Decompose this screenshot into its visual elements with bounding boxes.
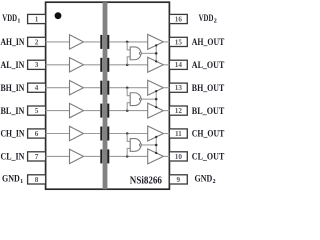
pin box 1 [28, 14, 46, 23]
junction node AL [126, 64, 129, 67]
wire enable line channel A [155, 45, 157, 61]
pin box 7 [28, 152, 46, 161]
pin box 8 [28, 175, 46, 184]
wire NAND UA output to enable node [142, 52, 157, 54]
wire output buffer AH to pin [163, 41, 169, 43]
isolation capacitor plates channel row pin 6 [100, 127, 109, 141]
input buffer BL [70, 103, 84, 117]
NAND gate UB interlock [130, 93, 141, 106]
svg-text:3: 3 [35, 61, 39, 69]
wire barrier to output buffer BL [109, 110, 147, 112]
svg-text:7: 7 [35, 153, 39, 161]
wire barrier to output buffer CL [109, 155, 147, 157]
wire input buffer CH to barrier [84, 133, 101, 135]
svg-text:VDD: VDD [2, 13, 17, 23]
svg-text:CL_IN: CL_IN [1, 152, 25, 162]
wire input buffer CL to barrier [84, 155, 101, 157]
svg-text:2: 2 [35, 38, 39, 46]
junction enable top contact C [155, 136, 157, 138]
isolation barrier bar [103, 2, 108, 189]
input buffer AL [70, 58, 84, 72]
wire AH junction to NAND UA top input [127, 42, 130, 50]
wire input buffer AL to barrier [84, 64, 101, 66]
wire output buffer CL to pin [163, 155, 169, 157]
svg-text:1: 1 [20, 179, 23, 185]
NAND UC output bubble [139, 144, 141, 146]
pin box 14 [169, 60, 187, 69]
svg-text:12: 12 [175, 107, 183, 115]
output buffer AH [148, 34, 164, 49]
svg-text:NSi8266: NSi8266 [130, 176, 162, 187]
input buffer CL [70, 149, 84, 163]
output buffer BL [148, 103, 164, 118]
svg-text:BL_IN: BL_IN [1, 106, 25, 116]
svg-text:AL_OUT: AL_OUT [192, 60, 225, 70]
input buffer AH [70, 35, 84, 49]
NAND UA output bubble [139, 52, 141, 54]
wire NAND UB output to enable node [142, 98, 157, 100]
wire barrier to output buffer AL [109, 64, 147, 66]
NAND gate UA interlock [130, 47, 141, 60]
wire AL junction to NAND UA bottom input [127, 57, 130, 65]
isolation capacitor plates channel row pin 2 [100, 35, 109, 49]
junction enable node B [155, 98, 158, 101]
junction enable bottom contact C [155, 152, 157, 154]
junction enable bottom contact B [155, 106, 157, 108]
wire input buffer AH to barrier [84, 41, 101, 43]
svg-text:BH_OUT: BH_OUT [192, 83, 225, 93]
svg-text:CH_OUT: CH_OUT [192, 129, 225, 139]
isolation capacitor plates channel row pin 7 [100, 149, 109, 163]
svg-text:1: 1 [35, 15, 39, 23]
svg-text:11: 11 [175, 130, 182, 138]
output buffer CL [148, 149, 164, 164]
svg-text:GND: GND [195, 174, 213, 184]
svg-text:VDD: VDD [199, 13, 214, 23]
wire output buffer BL to pin [163, 110, 169, 112]
junction enable bottom contact A [155, 60, 157, 62]
junction enable node A [155, 52, 158, 55]
output buffer AL [148, 57, 164, 72]
wire enable line channel B [155, 91, 157, 107]
svg-text:2: 2 [214, 18, 217, 24]
isolation capacitor plates channel row pin 4 [100, 81, 109, 95]
pin box 2 [28, 37, 46, 46]
wire CL junction to NAND UC bottom input [127, 148, 130, 156]
wire BH_IN pin to input buffer [46, 87, 70, 89]
svg-text:BL_OUT: BL_OUT [192, 106, 225, 116]
svg-text:16: 16 [175, 15, 183, 23]
junction node CH [126, 132, 129, 135]
wire input buffer BH to barrier [84, 87, 101, 89]
wire output buffer AL to pin [163, 64, 169, 66]
svg-text:1: 1 [17, 18, 20, 24]
pin box 5 [28, 106, 46, 115]
NAND gate UC interlock [130, 139, 141, 152]
wire AH_IN pin to input buffer [46, 41, 70, 43]
wire AL_IN pin to input buffer [46, 64, 70, 66]
junction node BL [126, 109, 129, 112]
svg-text:AL_IN: AL_IN [1, 60, 25, 70]
junction enable top contact B [155, 90, 157, 92]
input buffer BH [70, 81, 84, 95]
isolation capacitor plates channel row pin 5 [100, 104, 109, 118]
svg-text:14: 14 [175, 61, 183, 69]
junction node BH [126, 86, 129, 89]
wire output buffer BH to pin [163, 87, 169, 89]
pin box 15 [169, 37, 187, 46]
wire barrier to output buffer CH [109, 133, 147, 135]
wire CL_IN pin to input buffer [46, 155, 70, 157]
svg-text:13: 13 [175, 84, 183, 92]
svg-text:CH_IN: CH_IN [1, 129, 25, 139]
wire barrier to output buffer AH [109, 41, 147, 43]
input buffer CH [70, 126, 84, 140]
junction node CL [126, 155, 129, 158]
pin box 3 [28, 60, 46, 69]
pin box 16 [169, 14, 187, 23]
output buffer BH [148, 80, 164, 95]
svg-text:GND: GND [2, 174, 20, 184]
pin box 6 [28, 129, 46, 138]
wire BL_IN pin to input buffer [46, 110, 70, 112]
wire output buffer CH to pin [163, 133, 169, 135]
pin box 11 [169, 129, 187, 138]
svg-text:6: 6 [35, 130, 39, 138]
pin box 4 [28, 83, 46, 92]
svg-text:BH_IN: BH_IN [1, 83, 25, 93]
NAND UB output bubble [139, 98, 141, 100]
svg-text:2: 2 [213, 179, 216, 185]
wire BH junction to NAND UB top input [127, 88, 130, 96]
junction enable node C [155, 144, 158, 147]
wire barrier to output buffer BH [109, 87, 147, 89]
pin 1 indicator dot [55, 12, 62, 19]
pin box 12 [169, 106, 187, 115]
wire CH_IN pin to input buffer [46, 133, 70, 135]
wire BL junction to NAND UB bottom input [127, 103, 130, 111]
IC body U1 NSi8266 outline [46, 2, 170, 189]
svg-text:CL_OUT: CL_OUT [192, 152, 225, 162]
svg-text:15: 15 [175, 38, 183, 46]
output buffer CH [148, 126, 164, 141]
wire input buffer BL to barrier [84, 110, 101, 112]
wire NAND UC output to enable node [142, 144, 157, 146]
svg-text:AH_IN: AH_IN [1, 37, 25, 47]
svg-text:4: 4 [35, 84, 39, 92]
svg-text:9: 9 [177, 176, 181, 184]
junction enable top contact A [155, 44, 157, 46]
pin box 9 [169, 175, 187, 184]
svg-text:8: 8 [35, 176, 39, 184]
svg-text:AH_OUT: AH_OUT [192, 37, 225, 47]
wire enable line channel C [155, 137, 157, 153]
wire CH junction to NAND UC top input [127, 134, 130, 142]
pin box 13 [169, 83, 187, 92]
svg-text:10: 10 [175, 153, 183, 161]
junction node AH [126, 41, 129, 44]
svg-text:5: 5 [35, 107, 39, 115]
pin box 10 [169, 152, 187, 161]
isolation capacitor plates channel row pin 3 [100, 58, 109, 72]
